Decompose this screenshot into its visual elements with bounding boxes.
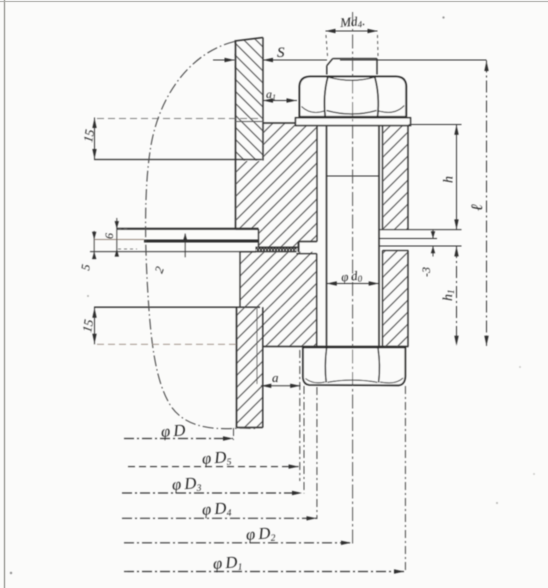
tongue left edge [258,229,260,247]
dimension phi D2 [124,542,351,544]
gasket zigzag [256,247,297,252]
lower flange step line [94,306,260,308]
dimension h [456,125,458,230]
lower flange bolt-hole left wall [316,254,318,347]
upper flange over-groove hatched [299,229,318,241]
svg-text:-3: -3 [419,267,433,277]
dimension a [261,385,301,387]
plate right edge lower [262,307,264,427]
dimension 2 (membrane thickness leader) [184,234,186,258]
stud centerline [352,12,354,544]
tongue right edge [298,242,300,253]
dimension phi D5 [128,466,299,468]
dimension phi D [124,438,233,440]
right joint line lower [379,245,462,247]
plate right edge upper [262,38,264,161]
lower flange left edge [239,252,241,307]
stud shank [326,126,328,348]
svg-text:φ D: φ D [160,420,186,441]
lower right block outer edge [407,251,409,347]
dimension h1 [456,246,458,346]
upper right block outer edge [407,123,409,230]
svg-text:ℓ: ℓ [469,204,486,211]
upper nut U1 [300,77,407,117]
right joint line upper [379,238,437,240]
lower flange right block hatched [383,251,409,347]
lower flange right-of-plate hatched [263,307,317,346]
dimension 15 lower [94,307,96,344]
upper flange right block hatched [383,123,409,230]
dimension 5 [93,231,95,258]
upper flange bottom face right of tongue [299,241,318,243]
lower right block inner edge [382,251,384,347]
upper flange main hatched [236,161,318,229]
plate bottom edge [237,427,263,429]
svg-text:S: S [277,45,285,61]
vessel plate upper block hatched [235,38,264,161]
washer under upper nut [296,118,411,126]
dimension 15 upper [94,118,96,160]
plate left edge upper [235,41,237,229]
upper flange top face left [263,122,296,124]
upper flange bottom-left face [236,228,259,230]
thread runout line [327,175,380,177]
upper flange tongue hatched [259,229,299,247]
dimension phi d0 (stud diameter) [327,283,380,285]
vessel plate lower block hatched [237,307,263,427]
dimension 6 [116,218,118,256]
svg-text:Md4.: Md4. [338,13,365,31]
dimension 3 (gap) [432,230,434,239]
lower flange top face right [297,253,317,255]
upper flange bolt-hole left wall [316,123,318,242]
dimension phi D3 [122,492,302,494]
dimension phi D4 [122,517,317,519]
lower flange bottom face [263,346,409,348]
lower right block top face [383,250,409,252]
tongue bottom face [259,246,299,248]
upper flange bolt-hole right wall [382,123,384,230]
joint lower line [90,251,256,253]
dimension S (plate thickness) [213,59,235,61]
upper flange hub hatched (right of plate, above weld step) [263,123,317,161]
scan specks [442,16,444,18]
phantom arc of dished head [146,42,257,429]
dimension phi D1 [124,571,404,573]
weld step line [94,159,262,161]
upper right block bottom face + h extension [379,229,462,231]
svg-text:a: a [272,370,279,385]
dimension l overall [486,61,488,346]
Md4 dim extension dashes [326,35,328,56]
page left edge line [4,0,6,588]
dimension Md4 [326,30,378,32]
faint line across plate at face level [236,121,264,123]
svg-text:6: 6 [102,233,116,239]
lower flange left part hatched [240,252,317,307]
membrane sheet thick line [144,240,259,243]
plate top edge [235,38,264,42]
membrane top line [117,228,259,230]
lower nut [303,348,405,386]
page top edge line [0,1,548,3]
plate left edge lower [236,307,238,427]
dimension a1 [263,100,297,102]
membrane faint extension [94,239,144,241]
svg-text:h: h [442,176,457,183]
lower flange top face left [240,251,256,253]
inner vertical line at plate-flange weld [256,307,258,384]
stud thread stub [326,66,328,75]
